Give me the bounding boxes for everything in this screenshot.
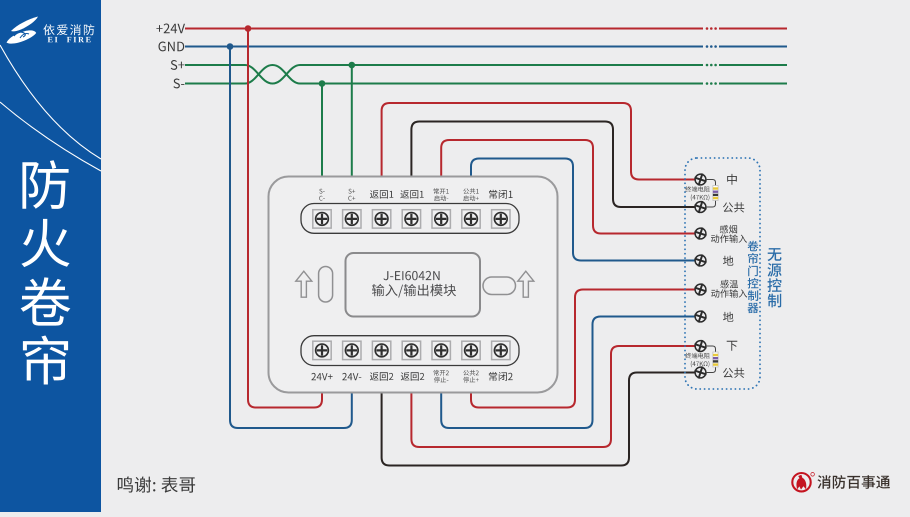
screw terminal S+C+ — [343, 210, 361, 228]
pill slot right — [483, 277, 516, 295]
screw terminal 24V+ — [313, 341, 331, 359]
label 返回1 b — [400, 190, 423, 199]
wire 返回1 to 公共 terminal — [411, 122, 695, 208]
sidebar arc 2 — [0, 102, 101, 171]
junction dot +24V — [245, 25, 252, 32]
wire GND to 24V- terminal — [230, 47, 352, 429]
module J-EI6042N body — [269, 177, 558, 393]
wire GND bus — [185, 46, 787, 48]
arrow icon left — [296, 271, 312, 297]
screw terminal 返回1 b — [402, 210, 420, 228]
logo text EI FIRE — [48, 37, 91, 42]
wire +24V to 24V+ terminal — [248, 29, 322, 408]
label 感烟 — [720, 225, 737, 234]
label 动作输入 b — [711, 289, 747, 297]
label 公共 top — [723, 202, 744, 212]
label S- — [173, 79, 184, 89]
terminating resistor R1 47K — [706, 180, 716, 208]
wire 返回2 to 下 terminal — [411, 346, 695, 447]
blue sidebar panel — [0, 0, 101, 512]
vertical title 防火卷帘 — [21, 160, 71, 384]
break dots S- — [706, 82, 717, 85]
label GND — [159, 42, 185, 52]
wire S+ bus with twist — [185, 65, 787, 84]
brand logo figure — [796, 475, 806, 490]
credit 鸣谢:表哥 — [118, 476, 151, 492]
vertical label 卷帘门控制器 — [748, 241, 759, 313]
break dots +24V — [706, 27, 717, 30]
label 返回1 a — [370, 190, 393, 199]
break dots S+ — [706, 64, 717, 67]
terminal 中 — [695, 174, 706, 185]
label 下 — [727, 341, 738, 351]
label S+/C+ — [348, 189, 355, 194]
terminal 下 — [695, 341, 706, 352]
screw terminal 返回2 a — [372, 341, 390, 359]
wire 返回2 to 公共 terminal — [382, 373, 696, 466]
label 返回2 b — [401, 372, 424, 381]
module nameplate — [346, 253, 481, 317]
junction dot GND — [227, 43, 234, 50]
label 24V+ — [311, 373, 332, 380]
screw terminal 返回1 a — [372, 210, 390, 228]
screw terminal 常开1 启动- — [432, 210, 450, 228]
wire 返回1 to 中 terminal — [382, 103, 696, 180]
terminating resistor R2 47K — [706, 346, 716, 373]
label 公共 bottom — [723, 368, 744, 378]
terminal 地 b — [695, 311, 706, 322]
label 地 b — [723, 312, 733, 322]
label 常开1/启动- — [434, 188, 449, 194]
wire +24V bus — [185, 28, 787, 30]
terminal 公共 bottom — [695, 367, 706, 378]
pill slot left — [319, 267, 333, 303]
sidebar arc 1 — [0, 45, 101, 159]
dashed box 卷帘门控制器 — [685, 158, 760, 389]
label 常开2/停止- — [434, 370, 449, 376]
label S+ — [171, 60, 185, 70]
label 公共2/停止+ — [463, 370, 478, 376]
screw terminal 常开2 停止- — [432, 341, 450, 359]
screw terminal 常闭2 — [492, 341, 510, 359]
terminal 地 a — [695, 255, 706, 266]
label 24V- — [342, 373, 361, 380]
terminal strip 1 — [301, 204, 519, 234]
text J-EI6042N — [383, 271, 439, 280]
brand logo ring — [792, 473, 810, 491]
wire S- bus with twist — [185, 65, 787, 84]
EI FIRE logo mark — [7, 17, 39, 44]
label 常闭1 — [489, 190, 513, 199]
wire S+ to S+C+ terminal — [351, 65, 353, 178]
screw terminal 公共2 停止+ — [462, 341, 480, 359]
wire 常开1 to 感烟 terminal — [441, 140, 695, 234]
label 感温 — [720, 280, 738, 288]
junction dot S+ — [349, 62, 356, 69]
wire 公共2 to 感温 terminal — [471, 290, 696, 408]
wire 常开2 to 地 terminal — [441, 317, 695, 429]
screw terminal S-C- — [313, 210, 331, 228]
screw terminal 公共1 启动+ — [462, 210, 480, 228]
label 动作输入 a — [711, 234, 747, 242]
label +24V — [156, 24, 185, 34]
label 常闭2 — [489, 372, 513, 381]
terminal 公共 top — [695, 202, 706, 213]
wire 公共1 to 地 terminal — [471, 159, 696, 261]
break dots GND — [706, 45, 717, 48]
arrow icon right — [518, 271, 534, 297]
wire S- to S-C- terminal — [321, 84, 323, 178]
screw terminal 24V- — [343, 341, 361, 359]
label 公共1/启动+ — [463, 188, 478, 194]
terminal strip 2 — [301, 336, 519, 366]
screw terminal 返回2 b — [402, 341, 420, 359]
label 地 a — [723, 256, 733, 266]
label 中 — [727, 174, 737, 185]
brand logo R mark — [811, 473, 815, 477]
brand text 消防百事通 — [818, 475, 891, 489]
label 返回2 a — [370, 372, 393, 381]
junction dot S- — [319, 80, 326, 87]
text 输入/输出模块 — [372, 284, 456, 298]
terminal 感烟动作输入 — [695, 228, 706, 239]
logo text 依爱消防 — [43, 24, 94, 35]
vertical label 无源控制 — [767, 248, 781, 307]
screw terminal 常闭1 — [492, 210, 510, 228]
label S-/C- — [319, 189, 324, 194]
terminal 感温动作输入 — [695, 284, 706, 295]
